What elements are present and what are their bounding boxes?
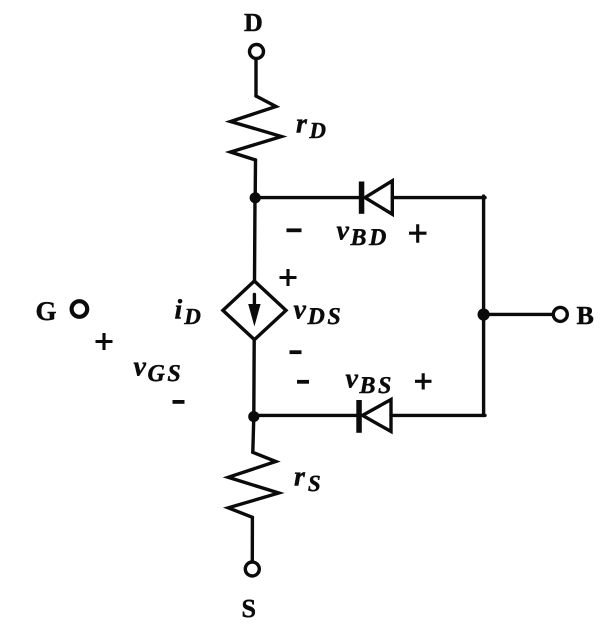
node S-internal junction (248, 411, 259, 422)
svg-text:iD: iD (175, 295, 202, 330)
diode DBD (359, 181, 393, 214)
label plus of vDS (280, 269, 297, 286)
resistor rS (228, 452, 279, 517)
label plus of vBD (409, 224, 427, 243)
wire D to rD (254, 59, 257, 96)
wire rD to node D-internal (253, 160, 257, 198)
svg-text:vBS: vBS (346, 364, 395, 400)
svg-text:rS: rS (294, 462, 321, 497)
svg-text:vBD: vBD (337, 216, 389, 252)
wire diode DBS to right rail (391, 414, 485, 417)
node D-internal junction (250, 192, 261, 203)
resistor rD (231, 96, 282, 160)
wire node to diode DBS (254, 414, 357, 417)
terminal D (250, 45, 264, 59)
label minus of vDS (290, 350, 302, 354)
svg-text:G: G (36, 296, 57, 326)
terminal B (553, 307, 567, 321)
terminal S (245, 562, 259, 576)
svg-text:vGS: vGS (134, 352, 184, 388)
current source iD (diamond) (223, 281, 286, 340)
label minus of vBD (287, 228, 302, 232)
diode DBS (356, 400, 391, 433)
label plus of vGS (96, 333, 113, 350)
wire node to current source (253, 198, 257, 281)
label minus of vBS (297, 380, 309, 384)
wire node to rS (253, 417, 254, 452)
svg-text:D: D (244, 8, 263, 37)
svg-text:vDS: vDS (294, 295, 344, 331)
svg-text:S: S (242, 594, 256, 623)
arrow of current source (248, 295, 260, 327)
label minus of vGS (173, 400, 185, 404)
wire node to diode DBD (255, 196, 359, 199)
terminal G (72, 301, 88, 317)
wire current source to node S-internal (252, 340, 256, 418)
wire node B to terminal B (484, 313, 553, 316)
wire rS to terminal S (251, 517, 254, 561)
label plus of vBS (415, 373, 432, 389)
right rail wire (482, 196, 485, 415)
svg-text:B: B (577, 301, 594, 330)
svg-text:rD: rD (296, 109, 326, 144)
node B junction (478, 308, 490, 320)
wire diode DBD to right rail (392, 196, 485, 199)
